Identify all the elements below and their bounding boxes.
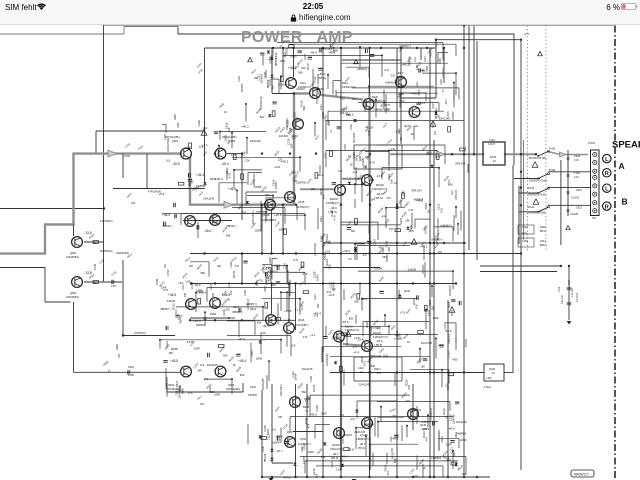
svg-text:(55.4): (55.4) <box>358 446 365 450</box>
svg-text:C204: C204 <box>315 405 319 412</box>
wire stub <box>280 428 282 443</box>
capacitor <box>370 55 374 57</box>
capacitor <box>175 214 177 218</box>
wire stub <box>271 265 273 280</box>
resistor <box>424 306 427 312</box>
svg-text:0.01: 0.01 <box>574 176 579 179</box>
svg-text:R615: R615 <box>251 68 258 74</box>
wire stub <box>362 298 418 300</box>
wire stub <box>280 340 282 354</box>
node <box>429 242 431 244</box>
wire stub <box>204 312 206 326</box>
svg-text:R230: R230 <box>390 452 394 459</box>
capacitor <box>260 53 264 55</box>
wire stub <box>359 47 361 67</box>
node <box>272 47 274 49</box>
svg-text:(1000/200(k): (1000/200(k) <box>315 243 317 256</box>
svg-text:2SA1145: 2SA1145 <box>207 363 218 367</box>
resistor <box>355 219 358 225</box>
svg-text:C106: C106 <box>244 290 247 296</box>
node <box>520 204 522 206</box>
wire <box>44 268 46 303</box>
svg-text:220P/50: 220P/50 <box>331 281 335 291</box>
svg-text:C113: C113 <box>327 328 334 336</box>
node <box>368 282 370 284</box>
wire stub <box>227 335 291 337</box>
node <box>425 309 427 311</box>
part number box MA3W117 <box>571 470 594 477</box>
warning triangle <box>566 226 570 230</box>
wire stub <box>245 104 247 122</box>
node <box>396 242 398 244</box>
wire stub <box>444 145 446 164</box>
svg-text:-45.5: -45.5 <box>291 171 298 175</box>
wire stub <box>385 94 387 113</box>
wire stub <box>455 73 457 95</box>
svg-text:Q604: Q604 <box>168 384 175 387</box>
svg-text:330: 330 <box>321 455 326 459</box>
svg-text:0191M: 0191M <box>408 268 417 272</box>
wire stub <box>296 204 298 220</box>
wire stub <box>262 339 281 341</box>
svg-text:56K: 56K <box>302 106 306 111</box>
svg-text:220P/200(k): 220P/200(k) <box>100 251 113 253</box>
svg-text:C202: C202 <box>358 367 364 370</box>
svg-text:-13.8: -13.8 <box>366 126 373 130</box>
capacitor <box>163 361 167 363</box>
node <box>447 476 449 478</box>
wire diode col <box>271 48 273 93</box>
svg-text:R147: R147 <box>424 56 427 62</box>
wire stub <box>425 93 427 101</box>
wire stub <box>246 191 277 193</box>
node <box>195 292 197 294</box>
svg-text:+0.6: +0.6 <box>158 192 164 196</box>
svg-text:C204: C204 <box>197 120 201 127</box>
node <box>368 242 370 244</box>
speaker terminal L <box>603 154 611 162</box>
svg-text:+0.6: +0.6 <box>438 343 444 347</box>
svg-text:+0.7: +0.7 <box>524 32 530 36</box>
node <box>535 153 537 155</box>
svg-text:K1358(O/Y1): K1358(O/Y1) <box>345 329 359 332</box>
svg-text:+45.4: +45.4 <box>228 187 236 191</box>
box C1R2 <box>518 238 534 247</box>
svg-text:+45.4: +45.4 <box>196 173 204 177</box>
wire stub <box>458 438 460 448</box>
svg-text:0.01: 0.01 <box>336 467 342 471</box>
node <box>159 339 161 341</box>
svg-text:10: 10 <box>492 372 495 375</box>
wire stub <box>355 167 357 186</box>
svg-text:R60B: R60B <box>103 360 110 366</box>
svg-text:C3421(O/V): C3421(O/V) <box>342 86 356 89</box>
node <box>412 476 414 478</box>
wire input A <box>117 153 180 155</box>
svg-text:-46.6: -46.6 <box>416 199 423 203</box>
node <box>340 476 342 478</box>
wire dotted boundary <box>545 26 547 251</box>
svg-text:D107: D107 <box>432 103 435 109</box>
node <box>361 184 363 186</box>
node <box>314 122 316 124</box>
wire stub <box>426 309 427 311</box>
svg-text:+0.6: +0.6 <box>185 145 191 149</box>
svg-text:C113: C113 <box>302 443 306 450</box>
wire stub <box>452 112 454 120</box>
node <box>355 427 357 429</box>
svg-text:33P: 33P <box>227 127 231 132</box>
wire stub <box>427 415 429 427</box>
node <box>416 47 418 49</box>
resistor <box>448 127 451 133</box>
wire stub <box>425 310 427 330</box>
wire stub <box>384 315 386 326</box>
capacitor <box>197 225 199 229</box>
node <box>429 282 431 284</box>
wire <box>0 208 104 210</box>
svg-text:15/50: 15/50 <box>128 374 135 377</box>
svg-text:+45.4: +45.4 <box>340 455 348 459</box>
svg-text:1000P: 1000P <box>228 316 236 320</box>
wire stub <box>341 224 401 226</box>
warning triangle <box>248 57 253 61</box>
wire <box>242 383 244 392</box>
node <box>346 333 348 335</box>
wire stub <box>437 52 439 63</box>
svg-text:C3858(O/Y/Y): C3858(O/Y/Y) <box>356 438 371 441</box>
diode D <box>355 410 358 413</box>
wire stub <box>247 424 249 444</box>
svg-text:100P: 100P <box>433 316 439 320</box>
wire stub <box>378 421 438 423</box>
svg-text:(HB45(Y): (HB45(Y) <box>226 225 237 228</box>
node <box>368 371 370 373</box>
wire stub <box>400 92 438 94</box>
transistor Q124C <box>362 418 373 429</box>
wifi icon <box>37 3 46 11</box>
wire stub <box>219 182 247 184</box>
svg-text:47P/2N6(X): 47P/2N6(X) <box>100 220 113 223</box>
svg-text:100P/200(k): 100P/200(k) <box>327 353 329 366</box>
wire stub <box>330 356 430 358</box>
transistor Q129 <box>396 77 407 88</box>
transistor Q614 <box>266 315 277 326</box>
svg-text:315: 315 <box>131 202 136 205</box>
wire stub <box>325 151 327 168</box>
svg-text:100P: 100P <box>287 430 293 434</box>
svg-text:R21(4: R21(4 <box>374 368 381 371</box>
battery percent <box>598 3 620 12</box>
svg-text:0.06: 0.06 <box>111 285 116 288</box>
wire signal path thick <box>321 95 363 100</box>
relay contact RY103 <box>537 187 549 194</box>
wire vcc rail <box>205 47 437 49</box>
svg-text:4.7K: 4.7K <box>227 172 231 178</box>
node <box>282 252 284 254</box>
svg-text:-0.5: -0.5 <box>265 267 271 271</box>
ground <box>352 479 357 480</box>
svg-text:4.7K: 4.7K <box>408 208 414 212</box>
wire stub <box>355 315 357 324</box>
resistor <box>451 462 457 465</box>
transistor Q117 <box>293 119 304 130</box>
wire stub <box>413 126 415 140</box>
svg-text:Q601: Q601 <box>70 251 77 255</box>
svg-text:2SA1145: 2SA1145 <box>359 383 370 387</box>
svg-text:-13.8: -13.8 <box>323 250 330 254</box>
capacitor <box>285 442 289 444</box>
wire stub <box>326 120 464 122</box>
battery icon <box>621 3 638 10</box>
wire stub <box>416 456 418 471</box>
capacitor <box>112 280 114 284</box>
wire stub <box>286 266 288 283</box>
svg-text:DH2402-DT1W(): DH2402-DT1W() <box>529 180 547 183</box>
svg-text:R: R <box>605 171 609 177</box>
capacitor <box>277 266 279 270</box>
wire stub <box>460 211 462 231</box>
clock <box>297 2 329 11</box>
url bar <box>290 14 297 22</box>
wire stub <box>441 370 443 388</box>
wire <box>447 300 449 477</box>
svg-text:R115: R115 <box>228 355 235 363</box>
svg-text:56K: 56K <box>201 271 206 275</box>
svg-text:R119: R119 <box>402 332 409 340</box>
svg-text:C210: C210 <box>282 423 290 431</box>
wire <box>435 40 437 98</box>
wire stub <box>401 425 403 441</box>
wire box <box>401 97 436 99</box>
wire stub <box>207 287 289 289</box>
svg-text:220: 220 <box>431 305 435 310</box>
capacitor <box>419 68 421 72</box>
svg-text:C204: C204 <box>249 178 257 186</box>
svg-text:1000P/100: 1000P/100 <box>248 298 250 310</box>
wire stub <box>362 322 364 337</box>
svg-text:10/50: 10/50 <box>285 265 289 272</box>
resistor <box>436 154 439 160</box>
wire <box>518 186 520 244</box>
wire <box>513 34 515 166</box>
svg-text:-0.5: -0.5 <box>187 391 193 395</box>
wire <box>122 260 124 336</box>
wire stub <box>399 93 401 108</box>
capacitor mark <box>567 210 570 212</box>
svg-text:470: 470 <box>377 372 382 375</box>
svg-text:BP4.7: BP4.7 <box>540 230 547 233</box>
svg-text:4.7K: 4.7K <box>333 215 337 221</box>
svg-text:0.5: 0.5 <box>272 428 277 432</box>
svg-text:330: 330 <box>271 85 275 90</box>
wire stub <box>449 402 451 411</box>
svg-text:1K: 1K <box>330 130 333 133</box>
wire stub <box>162 212 261 214</box>
node <box>463 47 465 49</box>
svg-text:82K: 82K <box>242 211 247 215</box>
svg-text:+46.2: +46.2 <box>342 249 350 253</box>
svg-text:220P/50: 220P/50 <box>242 83 244 92</box>
wire stub <box>218 183 220 203</box>
resistor <box>241 174 244 180</box>
wire stub <box>375 100 377 118</box>
svg-text:SP6-2042: SP6-2042 <box>354 132 356 143</box>
svg-text:(HB45(Y): (HB45(Y) <box>432 238 443 242</box>
svg-text:330: 330 <box>225 307 230 311</box>
svg-text:B119H: B119H <box>330 197 338 201</box>
wire stub <box>325 121 327 141</box>
wire stub <box>286 292 288 311</box>
wire stub <box>455 207 457 218</box>
svg-text:R213: R213 <box>372 318 380 326</box>
wire stub <box>280 77 282 90</box>
wire stub <box>346 66 369 68</box>
capacitor <box>308 57 312 59</box>
wire <box>295 284 297 331</box>
wire stub <box>218 146 220 160</box>
wire <box>177 27 179 35</box>
svg-text:C602: C602 <box>128 366 135 369</box>
svg-text:82K: 82K <box>257 321 262 325</box>
node <box>241 152 243 154</box>
svg-text:B12K: B12K <box>372 95 379 99</box>
node <box>294 476 296 478</box>
node <box>233 169 235 171</box>
node <box>271 476 273 478</box>
node <box>429 476 431 478</box>
svg-text:+1.1: +1.1 <box>337 459 343 463</box>
wire <box>504 372 513 374</box>
svg-text:R131: R131 <box>350 291 358 299</box>
svg-text:220: 220 <box>328 240 332 245</box>
node <box>280 339 282 341</box>
wire <box>400 48 402 144</box>
wire stub <box>377 422 379 438</box>
svg-text:R139: R139 <box>385 240 389 247</box>
svg-text:C204: C204 <box>250 221 258 229</box>
svg-text:1K: 1K <box>350 163 353 167</box>
svg-text:470: 470 <box>389 228 394 231</box>
page border dash-dot <box>614 26 616 480</box>
svg-text:2SA1145: 2SA1145 <box>203 196 214 200</box>
wire stub <box>238 322 240 338</box>
svg-text:1000P: 1000P <box>171 347 179 351</box>
wire stub <box>287 270 289 285</box>
wire stub <box>368 86 370 98</box>
svg-text:220P/200(k): 220P/200(k) <box>116 252 129 255</box>
svg-text:4/50: 4/50 <box>226 139 230 145</box>
wire stub <box>309 395 311 416</box>
capacitor <box>450 441 454 443</box>
ground <box>269 478 274 480</box>
resistor <box>289 45 295 48</box>
svg-text:C611: C611 <box>427 309 431 316</box>
wire stub <box>262 379 264 390</box>
node <box>396 282 398 284</box>
svg-text:R210: R210 <box>296 58 304 66</box>
wire row <box>519 211 538 213</box>
svg-text:L: L <box>605 157 609 163</box>
svg-text:100P: 100P <box>321 412 327 416</box>
wire stub <box>277 42 443 44</box>
wire stub <box>442 466 444 478</box>
svg-text:R11B: R11B <box>228 282 231 288</box>
node <box>368 476 370 478</box>
node <box>369 443 371 445</box>
svg-text:R148: R148 <box>440 79 443 85</box>
svg-text:-13.8: -13.8 <box>276 434 283 438</box>
node <box>271 58 273 60</box>
node <box>322 47 324 49</box>
capacitor <box>416 103 420 105</box>
transistor Q603 <box>181 148 192 159</box>
node <box>272 195 274 197</box>
svg-text:C2705(B/Y): C2705(B/Y) <box>296 324 309 327</box>
svg-text:-0.5: -0.5 <box>395 130 401 134</box>
resistor <box>344 448 350 451</box>
relay contact RY104 <box>537 206 549 213</box>
wire stub <box>416 406 418 424</box>
svg-text:100P: 100P <box>308 450 314 454</box>
wire <box>306 384 308 477</box>
wire stub <box>236 190 238 203</box>
svg-text:-13.8: -13.8 <box>357 337 364 341</box>
svg-text:B: B <box>622 197 628 207</box>
wire stub <box>232 207 285 209</box>
svg-text:R613: R613 <box>196 263 204 271</box>
svg-text:-0.5: -0.5 <box>352 170 358 174</box>
transistor Q606 <box>215 366 226 377</box>
svg-text:4.7K: 4.7K <box>384 108 390 112</box>
svg-text:100P: 100P <box>161 285 167 289</box>
svg-text:C611: C611 <box>378 346 385 354</box>
resistor <box>93 281 99 284</box>
wire <box>288 284 290 323</box>
node <box>429 252 431 254</box>
wire stub <box>312 69 314 91</box>
wire stub <box>262 298 300 300</box>
node <box>520 39 522 41</box>
svg-text:2SA1145: 2SA1145 <box>250 139 261 143</box>
wire stub <box>262 264 272 266</box>
svg-text:B07: B07 <box>317 303 320 308</box>
svg-text:D614: D614 <box>250 308 257 311</box>
svg-text:0.027/100: 0.027/100 <box>443 67 445 78</box>
capacitor <box>459 301 461 305</box>
wire page column <box>520 40 522 470</box>
wire lower out row <box>330 372 484 374</box>
svg-text:10K: 10K <box>400 136 403 141</box>
node <box>261 152 263 154</box>
svg-text:2SA1145: 2SA1145 <box>302 367 313 371</box>
svg-text:4/50: 4/50 <box>379 245 385 249</box>
transistor Q615 <box>285 192 296 203</box>
svg-text:7.1: 7.1 <box>305 410 309 413</box>
svg-text:R621: R621 <box>273 149 281 157</box>
wire stub <box>289 417 291 432</box>
node <box>241 252 243 254</box>
svg-text:D108: D108 <box>262 446 265 452</box>
wire stub <box>304 461 306 474</box>
resistor <box>342 333 348 336</box>
diode D602 <box>203 317 206 320</box>
wire stub <box>361 185 363 203</box>
wire <box>123 335 175 337</box>
wire stub <box>289 280 291 296</box>
capacitor <box>175 315 179 317</box>
svg-text:R124: R124 <box>274 406 280 413</box>
